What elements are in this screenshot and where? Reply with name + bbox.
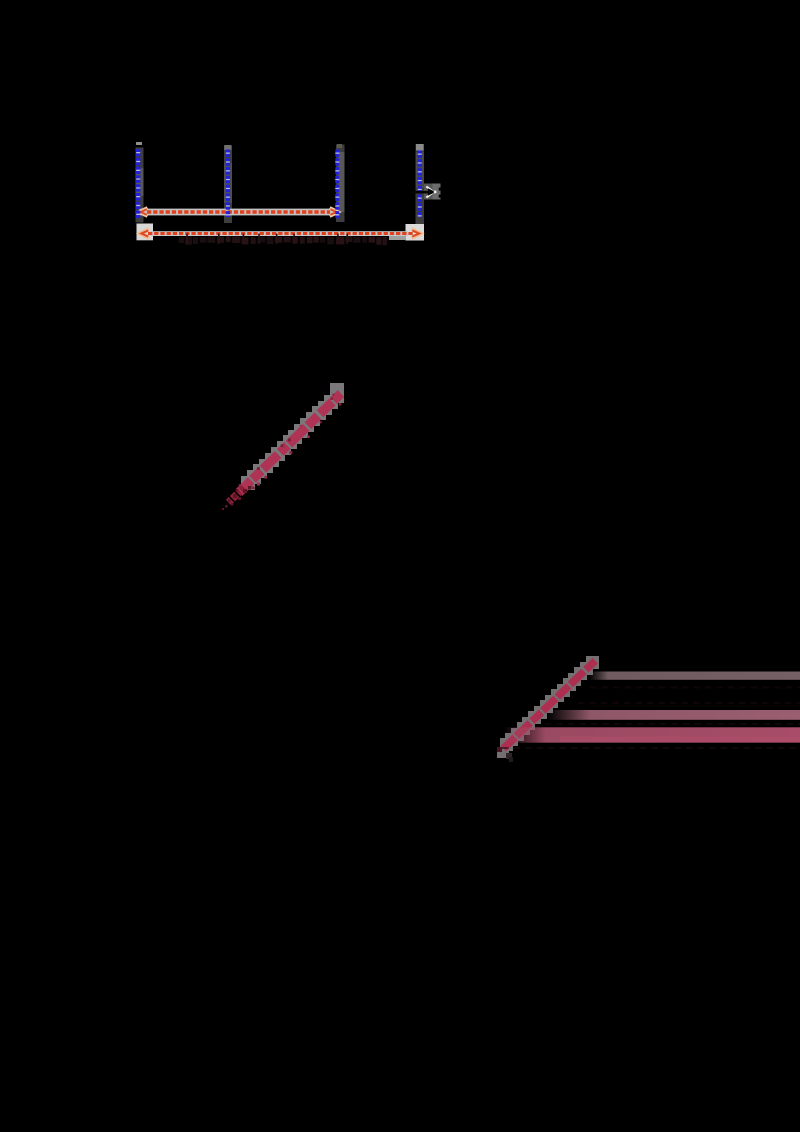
dimension line D1 dashes [147, 210, 330, 213]
middle diagonal annotation: grey staircase band [241, 383, 344, 490]
dimension line D2 left arrowhead [140, 229, 149, 238]
lower-right diagonal: dark specks at foot [497, 747, 513, 762]
faint dashed row d [502, 747, 800, 749]
faint dashed row a [590, 686, 800, 688]
dashed blue extension line 4 [418, 151, 422, 218]
dashed blue extension line 1 [136, 149, 140, 218]
band C bottom highlight [560, 737, 800, 743]
dimension text row (illegible dark glyphs) [179, 234, 388, 246]
dashed blue extension line 2 [226, 150, 230, 218]
lower-right diagonal: crimson streak [504, 660, 597, 749]
dimension line D2 band [150, 231, 408, 236]
middle diagonal annotation: crimson streak [239, 394, 341, 493]
faint dashed row b [578, 702, 800, 704]
cursor icon near line 4 [411, 184, 441, 200]
dimension line D1 left arrowhead [139, 208, 147, 216]
horizontal smear band B [547, 710, 800, 720]
extension line strip 4 backing [416, 144, 425, 224]
extension line strip 3 backing [336, 144, 345, 222]
dimension line D2 left end block [137, 224, 154, 241]
dimension line D2 right end block [389, 224, 424, 241]
faint dashed row c [545, 723, 800, 725]
dimension line D2 dashes [148, 232, 413, 235]
dimension line D2 right arrowhead [412, 229, 421, 238]
dimension line D1 right arrowhead [330, 208, 338, 216]
dimension line D1 band [139, 209, 339, 216]
middle diagonal annotation: lower dark-red glyph specks [222, 394, 341, 510]
extension line strip 2 backing [224, 145, 232, 223]
extension line strip 1 backing [136, 142, 144, 223]
horizontal smear band A [589, 672, 800, 680]
dashed blue extension line 3 [335, 150, 339, 219]
horizontal smear band C [504, 727, 800, 742]
lower-right diagonal: grey staircase band [497, 656, 599, 758]
